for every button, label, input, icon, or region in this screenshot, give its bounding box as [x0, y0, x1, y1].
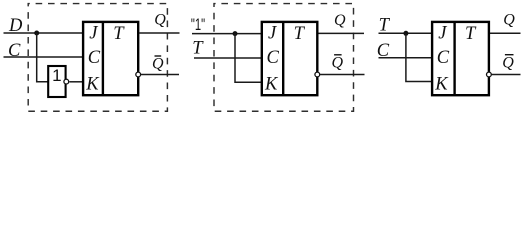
- svg-text:K: K: [434, 74, 449, 94]
- wire Q output 1: [139, 32, 179, 34]
- svg-text:T: T: [294, 24, 306, 44]
- overline Qbar 2: [334, 54, 342, 56]
- svg-text:1: 1: [52, 66, 61, 85]
- wire C input 1: [4, 56, 84, 58]
- svg-text:Q: Q: [332, 55, 344, 72]
- wire inverter to K: [69, 81, 83, 83]
- svg-text:T: T: [113, 24, 125, 44]
- svg-text:C: C: [88, 48, 101, 68]
- svg-text:C: C: [267, 48, 280, 68]
- flip-flop U4 box: [432, 22, 489, 95]
- svg-text:C: C: [437, 48, 450, 68]
- wire Qbar output 2: [320, 74, 365, 76]
- svg-text:K: K: [264, 74, 279, 94]
- dashed box circuit 1: [28, 4, 167, 112]
- svg-text:Q: Q: [502, 54, 514, 71]
- svg-text:Q: Q: [334, 12, 346, 29]
- svg-text:Q: Q: [152, 56, 164, 73]
- inverter U1 box: [48, 66, 65, 97]
- svg-text:T: T: [465, 24, 477, 44]
- svg-text:"1": "1": [191, 15, 205, 34]
- svg-text:Q: Q: [154, 12, 166, 29]
- wire Q output 2: [319, 32, 365, 34]
- wire drop dot3 to K: [406, 33, 433, 81]
- divider U3: [282, 22, 284, 95]
- wire T input 3: [379, 32, 434, 34]
- divider U2: [102, 22, 104, 95]
- wire Qbar output 3: [491, 74, 520, 76]
- node junction dot 2: [233, 31, 238, 36]
- wire drop from dot to inverter: [37, 33, 48, 82]
- wire Q output 3: [490, 32, 521, 34]
- inverter output bubble: [64, 79, 69, 84]
- flip-flop U2 box: [83, 22, 138, 95]
- wire T input 2: [194, 57, 262, 59]
- svg-text:T: T: [192, 38, 204, 58]
- wire Qbar output 1: [141, 74, 179, 76]
- dashed box circuit 2: [214, 4, 354, 112]
- svg-text:T: T: [379, 15, 391, 35]
- svg-text:J: J: [268, 24, 277, 44]
- node junction dot 3: [403, 31, 408, 36]
- svg-text:K: K: [85, 74, 100, 94]
- divider U4: [453, 22, 455, 95]
- flip-flop U3 box: [262, 22, 318, 95]
- wire C input 3: [379, 57, 434, 59]
- wire drop dot2 to K: [235, 34, 262, 83]
- inverted output bubble 2: [315, 72, 320, 77]
- svg-text:J: J: [438, 24, 447, 44]
- overline Qbar 3: [505, 54, 514, 56]
- svg-text:J: J: [89, 24, 98, 44]
- wire D input: [4, 32, 84, 34]
- inverted output bubble 3: [487, 72, 492, 77]
- svg-text:C: C: [8, 41, 21, 61]
- overline Qbar 1: [155, 55, 162, 57]
- wire J input 2: [192, 33, 262, 35]
- node junction dot 1: [34, 31, 39, 36]
- inverted output bubble 1: [136, 72, 141, 77]
- svg-text:Q: Q: [503, 12, 515, 29]
